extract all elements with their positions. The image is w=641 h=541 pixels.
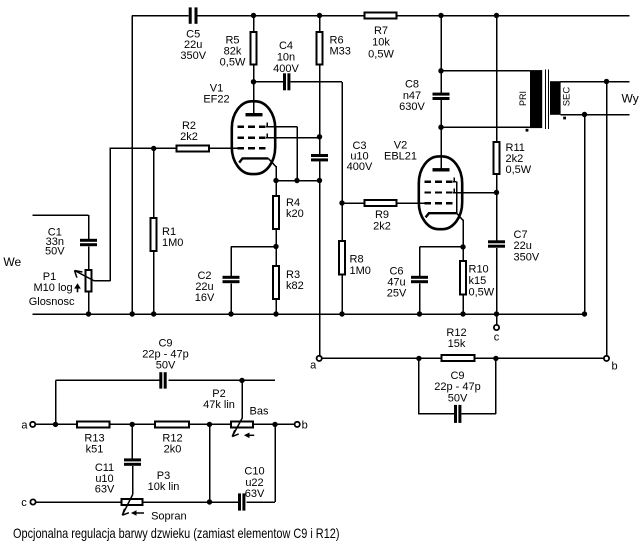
capacitor C10 plates [238, 493, 241, 510]
potentiometer P2 wiper arrow [232, 418, 242, 437]
svg-text:k51: k51 [86, 443, 104, 455]
capacitor C2 plates [223, 276, 240, 279]
resistor R12 (2k0) [155, 421, 189, 427]
tube V1 cathode [239, 158, 268, 162]
wire secondary top drop to terminal b [606, 82, 608, 356]
potentiometer P1 body [85, 270, 91, 292]
tube V1 grid g2 dashes [237, 136, 265, 138]
wire V1 g3 hook to cathode bus [266, 123, 297, 181]
svg-text:15k: 15k [448, 338, 466, 350]
svg-text:k15: k15 [469, 275, 487, 287]
junction dots C9 taps [416, 356, 421, 361]
svg-text:b: b [302, 420, 308, 432]
terminal c (main) [494, 325, 499, 330]
svg-text:Wy: Wy [622, 91, 639, 105]
tube V2 envelope [419, 156, 462, 229]
wire R10 leads [462, 247, 464, 314]
wire C3 to cathode-bus and down to terminal a [319, 162, 321, 356]
wire feedback row a-b [322, 357, 604, 359]
wire P2 wiper riser [241, 380, 243, 418]
wire V1 cathode lead down (diagonal) [268, 158, 276, 166]
svg-text:2k0: 2k0 [164, 443, 182, 455]
svg-text:R12: R12 [446, 327, 466, 339]
wire V2 anode lead [440, 127, 442, 169]
svg-text:0,5W: 0,5W [220, 57, 246, 69]
junction dot R4/R3/C2 [273, 244, 278, 249]
svg-text:630V: 630V [399, 101, 425, 113]
svg-text:10k lin: 10k lin [148, 481, 180, 493]
wire tone top (C9 branch) [56, 380, 276, 424]
resistor R1 [151, 218, 157, 251]
capacitor C8 plates [433, 93, 450, 96]
wire tone bottom row [36, 424, 275, 502]
wire C5 ground leg (left rail) [131, 16, 133, 315]
wire V1 cathode/g3/feedback bus [276, 180, 320, 182]
svg-text:EF22: EF22 [203, 94, 229, 106]
junction dots tone main row [53, 422, 58, 427]
svg-text:a: a [310, 360, 317, 372]
wire V1 g1 lead to R2 [210, 147, 238, 149]
junction dot R2/R1/wiper [151, 146, 156, 151]
wire B+ top rail (C5 to right end) [198, 15, 630, 17]
wire ground rail [33, 313, 585, 315]
capacitor C11 plates [124, 458, 141, 461]
svg-text:Opcjonalna regulacja barwy dzw: Opcjonalna regulacja barwy dzwieku (zami… [13, 526, 339, 541]
terminal b (tone) [295, 422, 300, 427]
tube V2 grid g2 dashes [424, 191, 452, 193]
resistor R10 [460, 261, 466, 295]
svg-text:R8: R8 [350, 254, 364, 266]
svg-text:0,5W: 0,5W [368, 49, 394, 61]
svg-text:350V: 350V [514, 252, 540, 264]
svg-text:Bas: Bas [250, 406, 269, 418]
wire R9 leads [342, 202, 425, 204]
svg-text:25V: 25V [387, 288, 407, 300]
svg-text:50V: 50V [45, 245, 65, 257]
wire R6/g2 node down to C3 [319, 137, 321, 154]
terminal a (tone) [30, 422, 35, 427]
tube V2 cathode [426, 213, 457, 217]
label volume up-arrow glyph [77, 287, 79, 292]
resistor R8 [339, 241, 345, 275]
wire V2 cathode lead down (diagonal) [457, 213, 463, 220]
svg-text:0,5W: 0,5W [469, 287, 495, 299]
terminal a (main) [317, 356, 322, 361]
wire R6 leads [319, 16, 321, 137]
junction dots on B+ rail [251, 13, 256, 18]
svg-text:c: c [21, 497, 27, 509]
wire transformer primary top [441, 70, 530, 72]
svg-text:k20: k20 [286, 208, 304, 220]
wire C7 to ground [496, 248, 498, 314]
wire V2 cathode node [420, 246, 464, 248]
svg-text:22p - 47p: 22p - 47p [434, 381, 480, 393]
wire V1 anode lead [253, 82, 255, 114]
wire C1 to P1 [88, 246, 90, 269]
wire riser bottom to main row [209, 424, 211, 502]
wire V2 cathode lead down [462, 220, 464, 247]
wire B+ down to primary and anode [440, 16, 442, 170]
wire V1 cathode lead down [275, 166, 277, 181]
wire terminal c stub [496, 314, 498, 325]
resistor R11 [494, 142, 500, 174]
svg-text:Glosnosc: Glosnosc [29, 296, 75, 308]
resistor R7 [365, 13, 397, 19]
svg-text:10n: 10n [277, 52, 295, 64]
svg-text:M10 log: M10 log [34, 282, 73, 294]
svg-text:R10: R10 [469, 264, 489, 276]
wire secondary bottom drop to ground [584, 115, 586, 315]
resistor R12 (15k) [442, 355, 475, 361]
wire C9 loop [419, 358, 496, 414]
wire C2 branch [231, 247, 276, 277]
svg-text:Sopran: Sopran [151, 511, 186, 523]
wire secondary bottom to output Wy [561, 114, 630, 116]
capacitor C4 plates [283, 73, 286, 90]
wire C7 lead [496, 193, 498, 241]
resistor R6 [317, 32, 323, 65]
svg-text:EBL21: EBL21 [384, 150, 417, 162]
tube V1 grid g3 dashes [237, 125, 265, 127]
wire V1 g2 hook to R6/C3 node [266, 134, 319, 138]
svg-text:63V: 63V [95, 483, 115, 495]
svg-text:1M0: 1M0 [350, 265, 371, 277]
wire secondary top to output Wy [561, 81, 630, 83]
junction dots cathode bus [273, 178, 278, 183]
wire R11 leads [496, 16, 498, 193]
svg-text:2k2: 2k2 [373, 221, 391, 233]
junction dot R11/g2/C7 [494, 190, 499, 195]
wire transformer primary bottom [441, 126, 530, 128]
junction dot V2 cathode/R10/C6 [460, 244, 465, 249]
svg-text:b: b [612, 360, 618, 372]
wire C2 to ground [230, 283, 232, 314]
junction dot R6/g2/C3 [317, 134, 322, 139]
wire V2 g3 hook to cathode [453, 178, 457, 214]
svg-text:a: a [21, 419, 28, 431]
transformer secondary phase dot [563, 117, 566, 120]
tube V2 grid g1 dashes [424, 202, 452, 204]
junction dot C4/R9/R8 [339, 200, 344, 205]
capacitor C1 plates [80, 239, 97, 242]
wire B+ top rail (left segment into C5) [132, 15, 189, 17]
svg-text:16V: 16V [195, 292, 215, 304]
transformer primary phase dot [526, 129, 529, 132]
capacitor C5 plates [189, 7, 192, 23]
svg-text:R9: R9 [375, 209, 389, 221]
svg-text:V1: V1 [210, 82, 223, 94]
svg-text:SEC: SEC [562, 87, 573, 107]
svg-text:M33: M33 [330, 46, 351, 58]
tube V1 envelope [232, 101, 275, 174]
wire V1 anode node to C4 and V2 grid column [254, 82, 343, 203]
svg-text:1M0: 1M0 [162, 237, 183, 249]
capacitor C7 plates [488, 240, 505, 243]
transformer core [546, 69, 549, 129]
svg-text:350V: 350V [180, 50, 206, 62]
svg-text:C8: C8 [405, 79, 419, 91]
svg-text:We: We [3, 255, 21, 269]
wire input We to C1 [33, 215, 89, 239]
capacitor C3 plates [311, 154, 328, 157]
tube V1 anode plate bar [246, 113, 263, 116]
transformer primary winding PRI [530, 70, 542, 128]
wire tone main row [35, 423, 294, 425]
resistor R4 [273, 196, 279, 229]
terminal b (main) [604, 356, 609, 361]
wire R1 leads [153, 148, 155, 314]
wire C6 branch down [419, 247, 421, 276]
svg-text:50V: 50V [156, 360, 176, 372]
junction dots primary taps [438, 68, 443, 73]
svg-text:0,5W: 0,5W [506, 164, 532, 176]
capacitor C6 plates [411, 276, 428, 279]
svg-text:22u: 22u [514, 240, 532, 252]
svg-text:C4: C4 [279, 40, 293, 52]
svg-text:400V: 400V [347, 161, 373, 173]
tube V2 anode plate bar [433, 168, 450, 171]
potentiometer P3 wiper arrow [122, 495, 132, 516]
junction dot R5/C4/V1-anode [251, 79, 256, 84]
resistor R3 [273, 266, 279, 299]
wire R8 leads [341, 203, 343, 314]
svg-text:10k: 10k [372, 37, 390, 49]
junction dot P2 wiper tap [239, 378, 244, 383]
svg-text:C9: C9 [450, 370, 464, 382]
tube V2 grid g3 dashes [424, 180, 452, 182]
wire R5 leads [253, 16, 255, 82]
resistor R13 [77, 421, 110, 427]
resistor R5 [251, 32, 257, 65]
junction dot P3/riser [207, 499, 212, 504]
svg-text:C10: C10 [244, 466, 264, 478]
svg-text:63V: 63V [245, 488, 265, 500]
P2 adjust arrow [249, 434, 255, 436]
junction dots on ground rail [86, 311, 91, 316]
junction dots secondary [604, 79, 609, 84]
potentiometer P2 body [231, 421, 253, 427]
potentiometer P1 wiper arrow [75, 271, 111, 281]
svg-text:PRI: PRI [518, 91, 528, 106]
wire P1 wiper riser to R2/R1 node [110, 148, 175, 280]
wire R3 leads [275, 247, 277, 315]
wire R4 leads [275, 181, 277, 247]
resistor R2 [176, 145, 209, 151]
svg-text:R7: R7 [374, 25, 388, 37]
resistor R9 [365, 200, 397, 206]
potentiometer P3 body [122, 499, 143, 505]
terminal c (tone) [30, 499, 35, 504]
wire V2 g2 hook to R11/C7 node [453, 189, 496, 193]
svg-text:47k lin: 47k lin [203, 399, 235, 411]
svg-text:50V: 50V [448, 392, 468, 404]
svg-text:400V: 400V [273, 63, 299, 75]
tube V1 grid g1 dashes [237, 147, 265, 149]
svg-text:c: c [494, 332, 500, 344]
wire C11 to P3 wiper [132, 466, 134, 495]
transformer secondary winding SEC [550, 81, 561, 115]
wire P1 bottom to ground [88, 293, 90, 315]
svg-text:k82: k82 [286, 280, 304, 292]
wire C6 to ground [419, 283, 421, 314]
P3 adjust arrow [136, 512, 145, 514]
capacitor C9 plates (main) [454, 405, 457, 423]
svg-text:2k2: 2k2 [180, 131, 198, 143]
capacitor C9 plates (tone) [159, 372, 162, 388]
wire C11 branch [131, 424, 133, 458]
